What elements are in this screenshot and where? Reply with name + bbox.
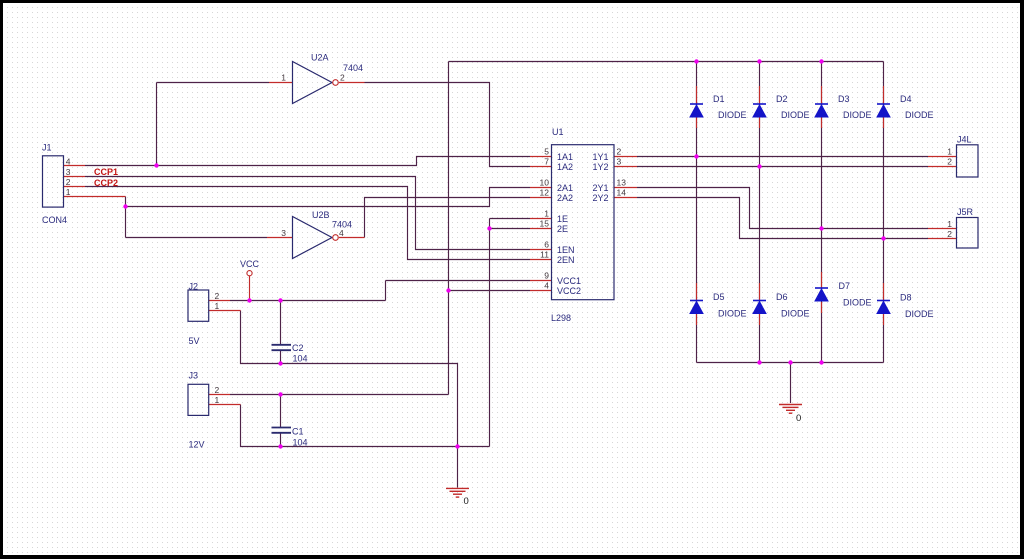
svg-text:2Y1: 2Y1	[592, 183, 608, 193]
svg-text:5: 5	[544, 147, 549, 157]
svg-text:D7: D7	[839, 281, 851, 291]
svg-text:1A2: 1A2	[557, 162, 573, 172]
svg-text:6: 6	[544, 240, 549, 250]
svg-text:J4L: J4L	[957, 135, 972, 145]
svg-text:CON4: CON4	[42, 215, 67, 225]
svg-text:D6: D6	[776, 292, 788, 302]
svg-text:1Y1: 1Y1	[592, 152, 608, 162]
svg-text:4: 4	[544, 281, 549, 291]
svg-text:15: 15	[540, 219, 550, 229]
svg-text:J3: J3	[189, 371, 199, 381]
svg-text:3: 3	[281, 228, 286, 238]
svg-text:3: 3	[66, 167, 71, 177]
svg-text:104: 104	[293, 438, 308, 448]
svg-text:U1: U1	[552, 127, 564, 137]
svg-text:D3: D3	[838, 94, 850, 104]
svg-text:13: 13	[617, 178, 627, 188]
svg-text:D2: D2	[776, 94, 788, 104]
svg-text:2: 2	[340, 73, 345, 83]
svg-text:1: 1	[544, 209, 549, 219]
svg-text:3: 3	[617, 157, 622, 167]
svg-text:2EN: 2EN	[557, 255, 575, 265]
svg-text:0: 0	[464, 496, 469, 507]
svg-text:1: 1	[215, 395, 220, 405]
svg-text:0: 0	[796, 413, 801, 424]
svg-text:DIODE: DIODE	[905, 309, 934, 319]
svg-text:C2: C2	[292, 343, 304, 353]
svg-text:C1: C1	[292, 427, 304, 437]
svg-text:4: 4	[66, 156, 71, 166]
svg-text:5V: 5V	[189, 336, 200, 346]
svg-text:DIODE: DIODE	[718, 309, 747, 319]
svg-text:U2B: U2B	[312, 210, 330, 220]
svg-text:2: 2	[66, 177, 71, 187]
svg-text:VCC1: VCC1	[557, 276, 581, 286]
svg-text:1: 1	[947, 219, 952, 229]
svg-text:7: 7	[544, 157, 549, 167]
svg-text:9: 9	[544, 271, 549, 281]
svg-text:1Y2: 1Y2	[592, 162, 608, 172]
svg-text:VCC2: VCC2	[557, 286, 581, 296]
svg-text:J1: J1	[42, 143, 52, 153]
svg-text:2A2: 2A2	[557, 193, 573, 203]
svg-text:J5R: J5R	[957, 207, 974, 217]
svg-text:DIODE: DIODE	[781, 110, 810, 120]
svg-text:D8: D8	[900, 293, 912, 303]
svg-text:DIODE: DIODE	[718, 110, 747, 120]
svg-text:1EN: 1EN	[557, 245, 575, 255]
svg-text:2Y2: 2Y2	[592, 193, 608, 203]
svg-text:11: 11	[540, 250, 549, 260]
svg-text:2E: 2E	[557, 224, 568, 234]
svg-text:DIODE: DIODE	[843, 110, 872, 120]
svg-text:U2A: U2A	[311, 53, 329, 63]
svg-text:1: 1	[66, 187, 71, 197]
svg-text:2: 2	[947, 157, 952, 167]
svg-text:2A1: 2A1	[557, 183, 573, 193]
svg-text:7404: 7404	[343, 63, 363, 73]
svg-text:1: 1	[281, 73, 286, 83]
svg-text:4: 4	[339, 228, 344, 238]
svg-text:2: 2	[215, 291, 220, 301]
svg-text:1: 1	[947, 147, 952, 157]
svg-text:DIODE: DIODE	[843, 298, 872, 308]
svg-text:1E: 1E	[557, 214, 568, 224]
svg-text:DIODE: DIODE	[781, 309, 810, 319]
svg-text:DIODE: DIODE	[905, 110, 934, 120]
svg-text:14: 14	[617, 188, 627, 198]
svg-text:12: 12	[540, 188, 550, 198]
svg-text:D4: D4	[900, 94, 912, 104]
svg-text:CCP1: CCP1	[94, 167, 118, 177]
svg-text:D1: D1	[713, 94, 725, 104]
svg-text:2: 2	[215, 385, 220, 395]
svg-text:2: 2	[947, 229, 952, 239]
svg-text:2: 2	[617, 147, 622, 157]
svg-text:J2: J2	[189, 282, 199, 292]
svg-text:CCP2: CCP2	[94, 178, 118, 188]
svg-text:VCC: VCC	[240, 259, 260, 269]
svg-text:1A1: 1A1	[557, 152, 573, 162]
svg-text:12V: 12V	[189, 440, 205, 450]
svg-text:104: 104	[293, 353, 308, 363]
svg-text:D5: D5	[713, 292, 725, 302]
svg-text:L298: L298	[551, 313, 571, 323]
svg-text:1: 1	[215, 301, 220, 311]
svg-text:10: 10	[540, 178, 550, 188]
